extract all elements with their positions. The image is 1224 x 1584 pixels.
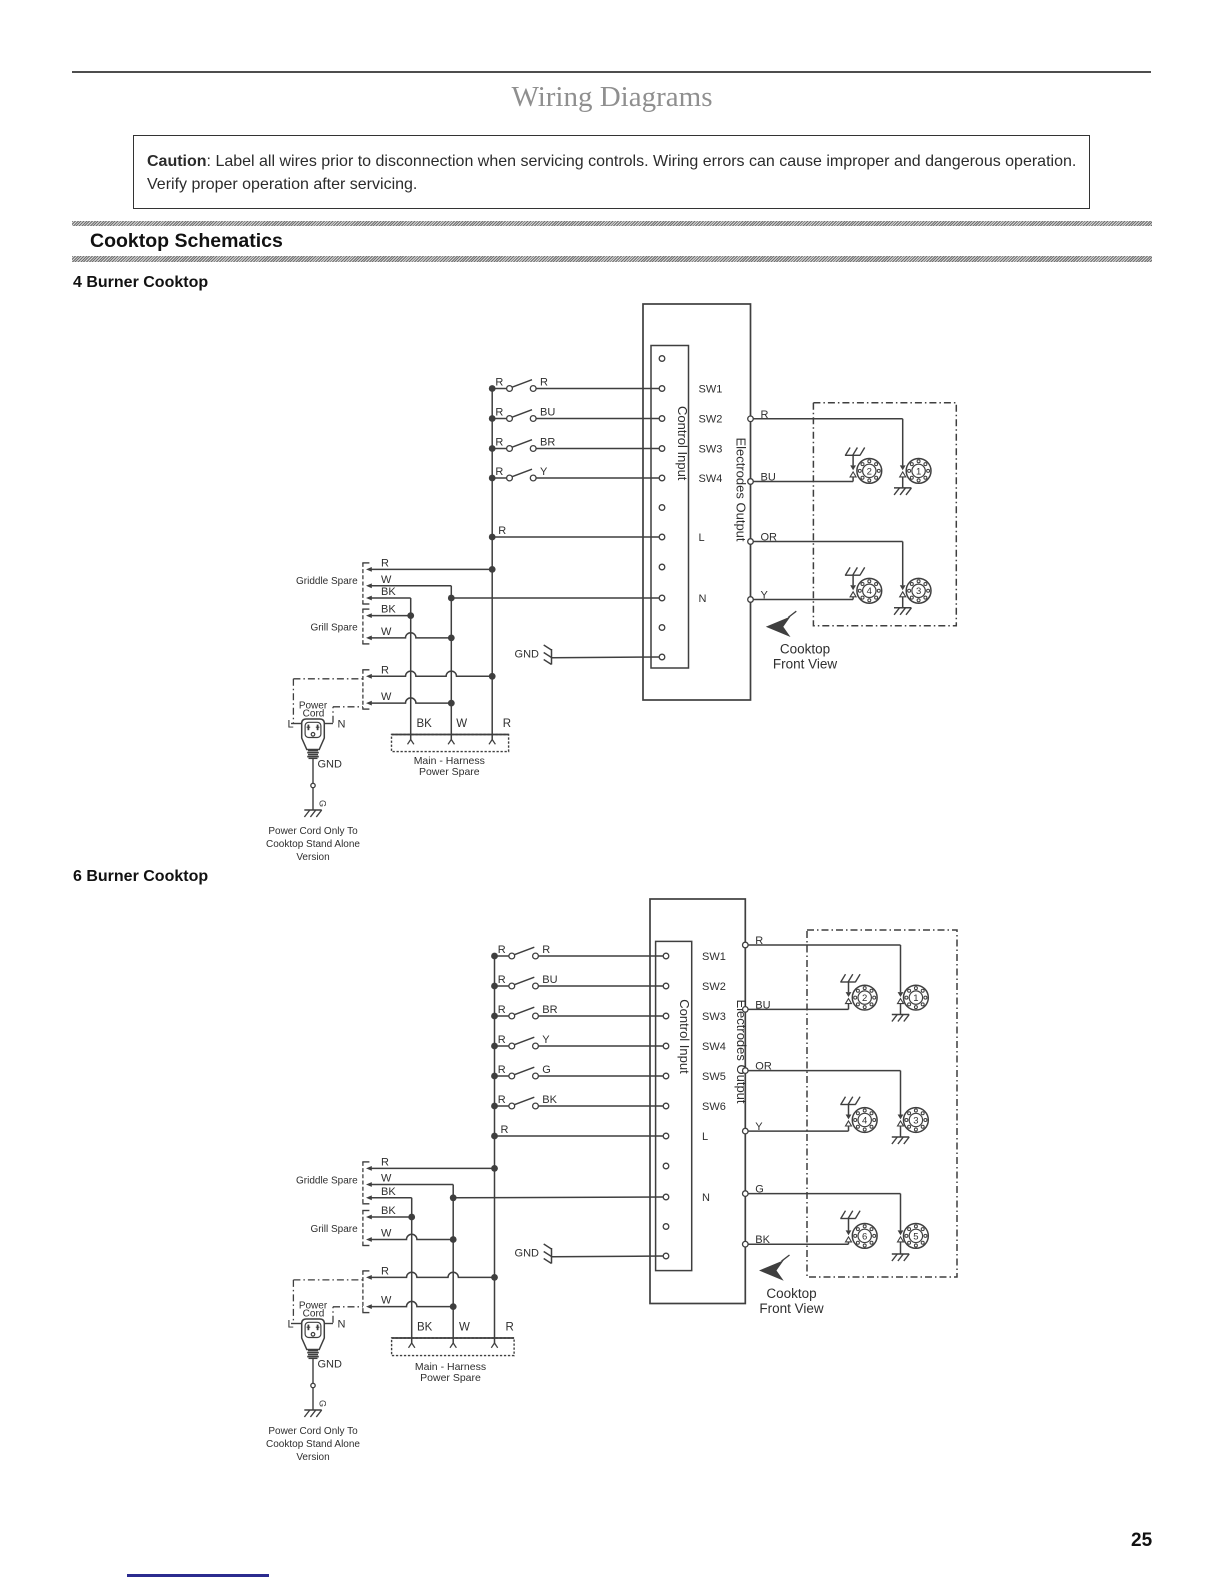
svg-text:R: R (498, 944, 506, 956)
svg-text:R: R (381, 1156, 389, 1168)
svg-text:SW1: SW1 (702, 951, 726, 963)
svg-text:BK: BK (417, 1322, 433, 1334)
svg-text:Cooktop Stand Alone: Cooktop Stand Alone (266, 839, 360, 850)
svg-text:Front View: Front View (759, 1301, 824, 1316)
svg-text:5: 5 (913, 1231, 918, 1242)
svg-text:6: 6 (862, 1231, 867, 1242)
svg-text:N: N (338, 1319, 346, 1331)
svg-text:SW6: SW6 (702, 1101, 726, 1113)
svg-text:R: R (506, 1322, 514, 1334)
svg-text:BR: BR (542, 1004, 557, 1016)
svg-text:R: R (498, 1004, 506, 1016)
svg-text:Griddle Spare: Griddle Spare (296, 576, 358, 587)
svg-text:BK: BK (381, 604, 396, 616)
svg-text:SW3: SW3 (702, 1011, 726, 1023)
svg-text:R: R (495, 466, 503, 478)
svg-text:N: N (338, 719, 346, 731)
svg-text:R: R (540, 376, 548, 388)
svg-text:R: R (495, 436, 503, 448)
svg-text:R: R (542, 944, 550, 956)
svg-text:G: G (318, 800, 328, 807)
svg-text:W: W (381, 1295, 392, 1307)
svg-text:W: W (381, 1228, 392, 1240)
svg-text:Electrodes Output: Electrodes Output (734, 437, 749, 541)
svg-text:BU: BU (542, 974, 557, 986)
svg-text:Grill Spare: Grill Spare (310, 1224, 358, 1235)
svg-text:R: R (498, 525, 506, 537)
svg-text:3: 3 (913, 1115, 918, 1126)
svg-text:Cord: Cord (303, 709, 325, 720)
svg-text:BK: BK (381, 1205, 396, 1217)
svg-text:R: R (498, 974, 506, 986)
svg-text:L: L (288, 1319, 294, 1331)
svg-text:Version: Version (296, 852, 329, 863)
svg-text:BR: BR (540, 436, 555, 448)
svg-text:SW4: SW4 (699, 473, 723, 485)
svg-text:BU: BU (540, 406, 555, 418)
svg-text:Power Spare: Power Spare (419, 766, 480, 778)
svg-text:1: 1 (916, 466, 921, 477)
svg-text:R: R (498, 1094, 506, 1106)
svg-text:SW5: SW5 (702, 1071, 726, 1083)
svg-text:SW3: SW3 (699, 444, 723, 456)
svg-text:BK: BK (542, 1094, 557, 1106)
svg-text:L: L (702, 1131, 708, 1143)
svg-text:2: 2 (862, 993, 867, 1004)
svg-text:W: W (459, 1322, 470, 1334)
svg-text:R: R (381, 664, 389, 676)
svg-text:N: N (699, 593, 707, 605)
svg-text:R: R (498, 1064, 506, 1076)
svg-text:L: L (699, 532, 705, 544)
svg-text:BK: BK (381, 586, 396, 598)
svg-text:4: 4 (867, 586, 872, 597)
svg-text:1: 1 (913, 993, 918, 1004)
svg-text:R: R (498, 1034, 506, 1046)
svg-text:GND: GND (515, 649, 540, 661)
svg-text:Cooktop Stand Alone: Cooktop Stand Alone (266, 1439, 360, 1450)
svg-text:R: R (495, 406, 503, 418)
svg-text:SW1: SW1 (699, 384, 723, 396)
svg-text:Grill Spare: Grill Spare (310, 623, 358, 634)
svg-text:W: W (381, 1173, 392, 1185)
svg-text:Front View: Front View (773, 657, 838, 672)
svg-text:Cooktop: Cooktop (780, 642, 830, 657)
svg-text:W: W (381, 691, 392, 703)
svg-text:Y: Y (540, 466, 548, 478)
svg-text:Control Input: Control Input (675, 406, 690, 481)
svg-text:3: 3 (916, 586, 921, 597)
svg-text:R: R (503, 718, 511, 730)
svg-text:2: 2 (867, 466, 872, 477)
svg-text:GND: GND (318, 1359, 343, 1371)
svg-text:BK: BK (417, 718, 433, 730)
svg-text:R: R (381, 1265, 389, 1277)
svg-text:SW2: SW2 (699, 414, 723, 426)
svg-text:Griddle Spare: Griddle Spare (296, 1175, 358, 1186)
svg-text:R: R (381, 557, 389, 569)
svg-text:N: N (702, 1192, 710, 1204)
svg-text:R: R (495, 376, 503, 388)
svg-text:Cord: Cord (303, 1309, 325, 1320)
svg-text:BK: BK (381, 1186, 396, 1198)
svg-text:L: L (288, 719, 294, 731)
svg-text:Version: Version (296, 1452, 329, 1463)
svg-text:SW4: SW4 (702, 1041, 726, 1053)
svg-text:Power Cord Only To: Power Cord Only To (268, 1426, 358, 1437)
svg-text:R: R (501, 1124, 509, 1136)
svg-text:W: W (381, 574, 392, 586)
svg-text:GND: GND (515, 1248, 540, 1260)
svg-text:Cooktop: Cooktop (766, 1286, 816, 1301)
svg-text:W: W (456, 718, 467, 730)
svg-text:Electrodes Output: Electrodes Output (734, 999, 749, 1103)
svg-text:G: G (542, 1064, 551, 1076)
svg-text:4: 4 (862, 1115, 867, 1126)
svg-text:Power Cord Only To: Power Cord Only To (268, 826, 358, 837)
svg-text:G: G (318, 1400, 328, 1407)
svg-text:Power Spare: Power Spare (420, 1372, 481, 1384)
svg-text:Y: Y (542, 1034, 550, 1046)
svg-text:W: W (381, 626, 392, 638)
svg-text:Control Input: Control Input (677, 999, 692, 1074)
svg-text:GND: GND (318, 759, 343, 771)
svg-text:SW2: SW2 (702, 981, 726, 993)
